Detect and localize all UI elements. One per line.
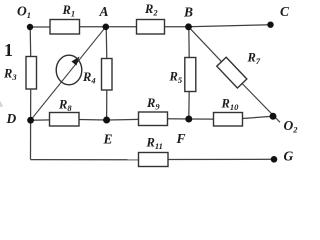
svg-text:1: 1 <box>4 40 13 60</box>
arrowhead of rheostat R4 <box>71 57 79 66</box>
svg-text:R2: R2 <box>144 2 158 18</box>
svg-text:O1: O1 <box>17 4 31 21</box>
wire R7 to O2 with overshoot <box>242 84 280 123</box>
node A <box>99 4 110 30</box>
node F <box>176 116 193 147</box>
wire A to R2 <box>106 26 137 28</box>
resistor R1 <box>50 3 80 34</box>
svg-text:G: G <box>284 149 294 164</box>
resistor R11 <box>139 136 169 167</box>
wire diagonal B to R7 <box>189 27 222 62</box>
wire D down to bottom rail <box>30 120 32 159</box>
svg-text:C: C <box>280 4 290 19</box>
svg-text:R3: R3 <box>3 67 17 83</box>
node B <box>183 5 193 31</box>
wire R1 to A <box>79 26 106 28</box>
svg-text:R1: R1 <box>62 3 76 19</box>
wire R8 to E <box>79 119 107 122</box>
resistor R10 <box>214 97 243 127</box>
wire R9 to F <box>167 118 189 120</box>
resistor R4 <box>82 59 112 91</box>
svg-text:F: F <box>176 131 186 146</box>
svg-text:A: A <box>99 4 109 19</box>
resistor R8 <box>50 98 80 127</box>
wire D to R8 <box>31 119 51 121</box>
svg-text:R7: R7 <box>247 51 261 67</box>
wire O1 to R1 <box>30 26 51 28</box>
node O1 <box>17 4 33 31</box>
wire B down to R5 <box>188 27 190 58</box>
wire E to R9 <box>107 118 139 121</box>
resistor R3 <box>3 57 37 90</box>
svg-text:R11: R11 <box>146 136 163 152</box>
svg-text:R4: R4 <box>82 70 96 86</box>
wire R10 to O2 <box>242 116 273 118</box>
meter circle of R4 branch <box>56 55 82 85</box>
svg-text:E: E <box>103 132 113 147</box>
wire O1 down to R3 <box>29 27 32 57</box>
svg-text:R8: R8 <box>58 98 72 114</box>
wire F to R10 <box>189 118 215 120</box>
svg-text:O2: O2 <box>284 118 299 135</box>
resistor R9 <box>139 96 168 126</box>
wire A down to R4 <box>105 27 108 59</box>
wire R4 down to E <box>106 90 108 121</box>
svg-text:B: B <box>183 5 193 20</box>
stray mark at left edge <box>0 101 3 108</box>
wire R3 down to D <box>30 89 32 121</box>
wire diagonal D to A through rheostat <box>31 27 106 120</box>
wire R2 to B <box>164 26 189 28</box>
svg-text:R10: R10 <box>221 97 240 113</box>
resistor R7 <box>217 51 261 88</box>
terminal G <box>271 149 294 164</box>
wire R5 down to F <box>188 92 190 120</box>
svg-text:R5: R5 <box>169 70 183 86</box>
svg-text:D: D <box>6 111 17 126</box>
terminal C <box>267 4 290 28</box>
node D <box>6 111 35 126</box>
node E <box>103 117 113 147</box>
terminal O2 <box>270 113 299 135</box>
wire R11 to G <box>167 158 274 160</box>
wire B to C <box>189 25 271 27</box>
resistor R2 <box>137 2 165 34</box>
wire bottom rail to R11 <box>31 159 140 161</box>
resistor R5 <box>169 58 196 92</box>
svg-text:R9: R9 <box>146 96 160 112</box>
